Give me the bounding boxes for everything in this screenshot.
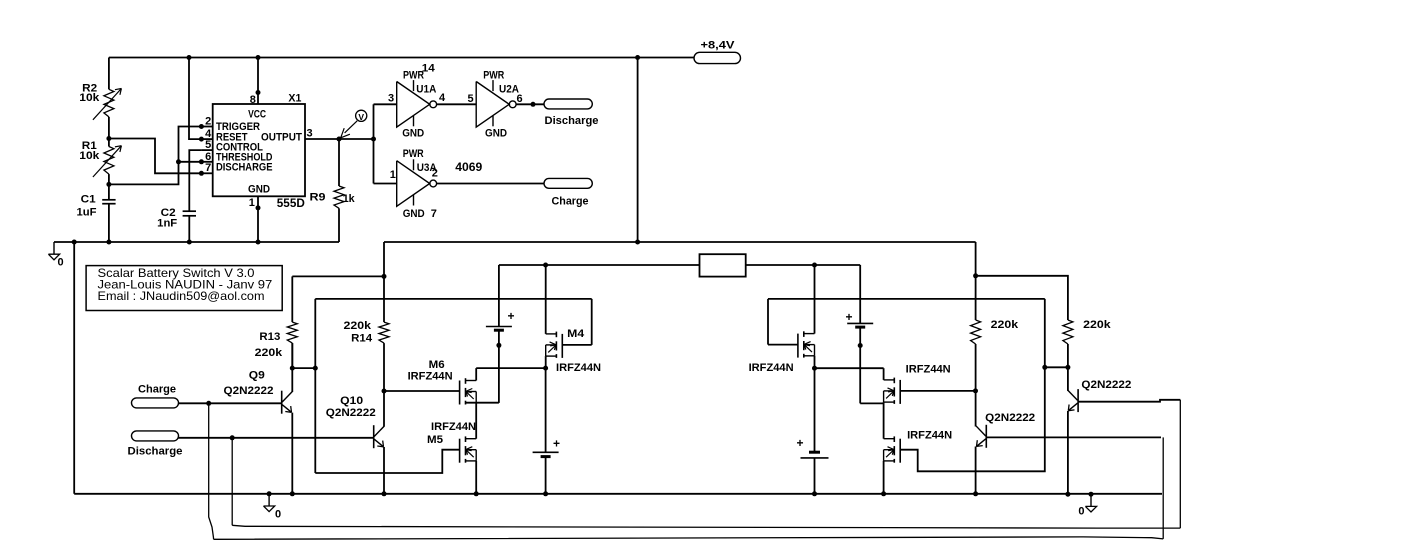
wire U2A out to Discharge connector <box>516 103 544 105</box>
wire MR3 gate run <box>900 299 1045 471</box>
node R2/R1 junction <box>106 136 111 141</box>
node ground tap bottom-right <box>1089 492 1094 497</box>
transistor MR3 IRFZ44N MOSFET <box>884 438 895 440</box>
wire M4 source to node <box>545 356 547 368</box>
resistor R13 220k <box>291 276 293 322</box>
pin 1 of 555 <box>257 196 259 242</box>
wire U1A out to U2A in <box>437 103 477 105</box>
inverter U3A 4069 <box>397 161 430 207</box>
svg-text:Q2N2222: Q2N2222 <box>985 412 1035 424</box>
transistor M5 IRFZ44N MOSFET <box>466 438 477 440</box>
wire 220k-2 feed <box>976 276 1068 320</box>
svg-text:DISCHARGE: DISCHARGE <box>216 162 273 174</box>
resistor R right-2 220k <box>1063 320 1073 344</box>
svg-text:GND: GND <box>403 208 425 220</box>
transistor Q9 Q2N2222 <box>281 391 283 414</box>
svg-text:220k: 220k <box>991 319 1019 331</box>
transistor Q10 Q2N2222 <box>373 425 375 448</box>
svg-text:M6: M6 <box>429 359 445 371</box>
wire C2 bottom lead <box>188 216 190 242</box>
wire MR2 gate lead <box>900 390 975 392</box>
node link on gate line vertical <box>313 366 318 371</box>
wire M4 gate lead <box>562 344 591 346</box>
node M4 source junction <box>543 366 548 371</box>
wire Q10 collector <box>383 391 385 427</box>
inverter U1A 4069 <box>397 82 430 128</box>
op-amp U1 555 timer X1 box <box>213 104 305 196</box>
svg-text:5: 5 <box>205 139 211 151</box>
battery B4 right pack <box>814 368 816 451</box>
svg-text:220k: 220k <box>344 320 372 332</box>
wire +8.4V bus horizontal (right segment from R14) <box>384 241 976 243</box>
svg-text:Charge: Charge <box>552 196 589 208</box>
svg-text:+: + <box>508 309 515 323</box>
svg-text:IRFZ44N: IRFZ44N <box>906 364 951 376</box>
wire right bus drop <box>975 242 977 276</box>
wire QR1 base drop right <box>1162 437 1164 539</box>
wire to U1A input <box>374 103 397 105</box>
svg-text:Email : JNaudin509@aol.com: Email : JNaudin509@aol.com <box>98 289 265 303</box>
node pin6 tap junction <box>176 159 181 164</box>
wire QR2 emitter <box>1067 411 1069 494</box>
svg-text:1nF: 1nF <box>157 218 177 230</box>
wire R2-R1 link <box>108 117 110 147</box>
ground 0 bottom-left <box>268 494 270 506</box>
node bus/left-drop junction <box>72 240 77 245</box>
wire MR2-MR3 bus <box>883 402 885 439</box>
svg-text:5: 5 <box>468 93 474 105</box>
wire B4 minus to rail <box>814 458 816 494</box>
wire inverter input feed vertical <box>373 104 375 183</box>
node 220k tap junction <box>973 273 978 278</box>
node QR2 emitter on rail <box>1065 492 1070 497</box>
node VCC junction at C2 branch <box>187 55 192 60</box>
svg-text:2: 2 <box>205 115 211 127</box>
svg-text:555D: 555D <box>277 196 305 210</box>
wire B2 minus to rail <box>545 458 547 494</box>
svg-text:14: 14 <box>422 62 436 74</box>
svg-text:Charge: Charge <box>138 384 176 396</box>
wire U3A out to Charge connector <box>437 183 545 185</box>
wire QR1 base <box>986 436 1161 438</box>
resistor R right-1 220k <box>975 276 977 320</box>
wire Q9 emitter <box>291 413 293 494</box>
wire right gate line horizontal <box>768 298 1045 300</box>
wire MR1-source/MR2-drain link <box>815 367 884 369</box>
wire +8.4V vertical to lower bus <box>637 58 639 243</box>
svg-text:IRFZ44N: IRFZ44N <box>907 430 952 442</box>
voltage probe V on output <box>356 110 367 121</box>
wire MR1 source to node <box>814 356 816 368</box>
svg-text:+8,4V: +8,4V <box>701 40 736 52</box>
svg-text:3: 3 <box>307 128 313 140</box>
svg-text:1: 1 <box>249 197 255 209</box>
wire discharge loop drop left <box>231 438 233 526</box>
svg-text:4: 4 <box>439 92 446 104</box>
node R1/C1 junction <box>106 182 111 187</box>
svg-text:10k: 10k <box>79 150 100 162</box>
wire R1 bottom lead <box>108 174 110 200</box>
node bus/C2 junction <box>187 240 192 245</box>
pin 6 of 555 <box>201 161 212 163</box>
wire MR1 drain <box>814 265 816 334</box>
wire 0V bottom rail <box>74 493 1162 495</box>
svg-text:8: 8 <box>250 94 256 106</box>
transistor M4 IRFZ44N MOSFET <box>546 333 557 335</box>
svg-text:6: 6 <box>205 151 211 163</box>
wire R13 bottom link to gate line <box>292 367 315 369</box>
ground 0 bottom-right <box>1090 494 1092 506</box>
svg-text:R9: R9 <box>310 191 326 203</box>
svg-text:VCC: VCC <box>248 109 266 121</box>
resistor R1 10k variable <box>104 147 114 175</box>
wire QR1 emitter <box>975 447 977 494</box>
svg-text:4069: 4069 <box>455 160 482 174</box>
svg-text:+: + <box>797 436 804 450</box>
wire VCC to 555 pin4 reset <box>189 58 201 140</box>
wire M6 gate <box>384 390 460 392</box>
svg-text:0: 0 <box>58 257 64 269</box>
node M6 gate tap <box>382 389 387 394</box>
node MR3 source on rail <box>881 491 886 496</box>
node M5 source on rail <box>474 491 479 496</box>
node MR1 drain tap <box>812 263 817 268</box>
svg-text:GND: GND <box>485 127 507 139</box>
node on B3 minus lead <box>858 343 863 348</box>
node junction +8.4V on lower bus <box>635 240 640 245</box>
wire M6-M5 bus <box>475 403 477 439</box>
wire R2 top lead <box>108 58 110 90</box>
svg-text:7: 7 <box>431 208 437 220</box>
node discharge loop tap <box>230 435 235 440</box>
transistor QR2 Q2N2222 <box>1077 389 1079 412</box>
wire battery1L plus to box <box>499 264 700 266</box>
svg-text:Q10: Q10 <box>340 395 363 407</box>
svg-text:0: 0 <box>1078 506 1084 518</box>
node QR1 emitter on rail <box>973 491 978 496</box>
svg-text:IRFZ44N: IRFZ44N <box>408 371 453 383</box>
wire Discharge to Q10 base <box>179 437 374 439</box>
node on B1 minus lead <box>496 343 501 348</box>
wire M5 source to rail <box>475 461 477 494</box>
wire QR2 base drop right <box>1179 400 1181 528</box>
wire Q10 emitter <box>383 447 385 494</box>
svg-text:GND: GND <box>402 127 424 139</box>
wire QR2 base <box>1078 400 1180 402</box>
wire M4/M5 gate line vertical <box>314 299 316 473</box>
wire charge bottom loop <box>214 537 1164 539</box>
wire to U3A input <box>374 183 397 185</box>
svg-text:220k: 220k <box>1083 319 1111 331</box>
wire charge loop drop left <box>209 403 214 539</box>
wire MR1 gate lead <box>768 344 798 346</box>
wire MR2 drain up <box>883 368 885 380</box>
svg-text:M4: M4 <box>567 328 585 340</box>
node on discharge wire <box>531 102 536 107</box>
capacitor C2 1nF <box>183 210 196 212</box>
wire battery B1 minus <box>498 332 500 403</box>
svg-text:IRFZ44N: IRFZ44N <box>749 362 794 374</box>
wire 555 pin6 threshold tap <box>179 161 202 163</box>
transistor QR1 Q2N2222 <box>985 425 987 448</box>
wire QR2 collector <box>1067 367 1069 391</box>
wire left vertical drop to bottom rail <box>73 242 75 494</box>
pin 4 of 555 <box>201 138 212 140</box>
svg-text:V: V <box>358 112 364 122</box>
wire B3 minus <box>859 328 861 403</box>
connector Charge (left) <box>132 398 179 408</box>
wire Charge to Q9 base <box>179 402 282 404</box>
svg-text:6: 6 <box>517 93 523 105</box>
wire B3 minus to MR2 source <box>860 402 883 404</box>
inverter U2A 4069 <box>476 82 509 128</box>
connector Discharge (left) <box>132 431 179 441</box>
svg-text:Q2N2222: Q2N2222 <box>1081 379 1131 391</box>
node VCC junction at +8.4V drop <box>635 55 640 60</box>
node junction R13-top on R14 line <box>382 274 387 279</box>
node charge loop tap <box>206 401 211 406</box>
resistor R9 1k <box>338 139 340 186</box>
svg-text:Q9: Q9 <box>249 370 265 382</box>
wire MR1 gate rise <box>767 299 769 345</box>
svg-text:3: 3 <box>388 93 394 105</box>
node B2 on rail <box>543 491 548 496</box>
svg-text:1: 1 <box>390 169 396 181</box>
node pin1 on 0V bus <box>256 240 261 245</box>
svg-text:GND: GND <box>248 184 270 196</box>
svg-text:M5: M5 <box>427 434 443 446</box>
svg-text:PWR: PWR <box>483 70 504 82</box>
resistor R2 10k variable <box>104 89 114 117</box>
svg-text:+: + <box>553 437 560 451</box>
connector Discharge (top) <box>544 99 592 109</box>
wire QR1 collector <box>975 391 977 427</box>
svg-text:0: 0 <box>275 509 281 521</box>
svg-text:10k: 10k <box>79 92 100 104</box>
svg-text:IRFZ44N: IRFZ44N <box>431 421 476 433</box>
power connector +8.4V <box>694 52 741 63</box>
node ground tap bottom-left <box>267 491 272 496</box>
node Q9 emitter on rail <box>290 491 295 496</box>
connector Charge (top) <box>544 178 592 188</box>
transistor MR2 IRFZ44N MOSFET <box>884 379 895 381</box>
svg-text:R13: R13 <box>259 331 280 343</box>
transistor MR1 IRFZ44N MOSFET <box>804 333 815 335</box>
wire MR3 source to rail <box>883 461 885 494</box>
resistor R14 220k <box>383 242 385 322</box>
svg-text:Q2N2222: Q2N2222 <box>326 407 376 419</box>
wire right cross-link <box>1045 366 1068 368</box>
svg-text:1uF: 1uF <box>77 207 97 219</box>
svg-text:C1: C1 <box>81 194 96 206</box>
svg-text:OUTPUT: OUTPUT <box>261 131 302 143</box>
svg-text:Q2N2222: Q2N2222 <box>224 385 274 397</box>
node bus/C1 junction <box>106 240 111 245</box>
wire discharge bottom loop <box>232 525 1180 528</box>
node output junction at R9 <box>337 137 342 142</box>
pin 2 of 555 <box>201 126 212 128</box>
shunt box component <box>700 254 746 276</box>
node Q10 emitter on rail <box>382 491 387 496</box>
wire M4 gate drop <box>591 299 593 345</box>
svg-text:2: 2 <box>432 168 438 180</box>
wire box to battery B1R <box>746 264 861 266</box>
svg-text:7: 7 <box>205 162 211 174</box>
svg-text:Discharge: Discharge <box>128 446 183 458</box>
svg-text:Discharge: Discharge <box>545 115 599 127</box>
wire M5 gate run <box>315 450 459 473</box>
node cross-link at 220k <box>1065 365 1070 370</box>
wire 0V bus horizontal (left segment, ends at R9) <box>54 241 339 243</box>
wire R13 top to R14 line <box>292 275 384 277</box>
wire R1-R2 junction to 555 pin7 discharge <box>109 139 201 174</box>
transistor M6 IRFZ44N MOSFET <box>466 380 477 382</box>
ground 0 top-left <box>53 242 55 254</box>
wire Q9 collector <box>291 343 293 392</box>
node M4 drain tap <box>543 263 548 268</box>
wire M6 source to battery B1 minus <box>466 402 499 404</box>
battery B3 right pack <box>859 265 861 323</box>
title box frame <box>86 266 282 311</box>
svg-text:IRFZ44N: IRFZ44N <box>556 362 601 374</box>
pin 7 of 555 <box>201 172 212 174</box>
node MR1 source junction <box>812 366 817 371</box>
pin 8 of 555 <box>257 58 259 105</box>
node right gate line cross-link <box>1042 365 1047 370</box>
wire C1 bottom lead <box>108 204 110 242</box>
wire M4 drain <box>545 265 547 334</box>
pin 5 of 555 <box>201 149 212 151</box>
wire M4 gate line horizontal <box>315 298 591 300</box>
svg-text:220k: 220k <box>255 347 283 359</box>
node MR2 gate junction <box>973 388 978 393</box>
node R13 bottom junction <box>290 366 295 371</box>
wire M6 drain up <box>475 368 477 380</box>
node VCC junction at 555 pin8 <box>256 55 261 60</box>
svg-text:R14: R14 <box>351 333 373 345</box>
svg-text:U1A: U1A <box>416 84 436 96</box>
node B4 on rail <box>812 491 817 496</box>
svg-text:PWR: PWR <box>403 148 424 160</box>
battery B2 left pack <box>545 368 547 452</box>
pin 3 output of 555 <box>305 138 374 140</box>
capacitor C1 1uF <box>102 199 115 201</box>
svg-text:+: + <box>846 310 853 324</box>
wire VCC top rail <box>109 57 694 59</box>
wire M4-source/M6-drain link <box>476 367 545 369</box>
wire 555 pin5 control to C2 <box>189 150 201 211</box>
battery B1 left pack <box>498 265 500 327</box>
svg-text:1k: 1k <box>343 193 356 205</box>
svg-text:X1: X1 <box>288 93 301 105</box>
node output junction at inverter feed <box>371 137 376 142</box>
wire C1 top to 555 pin2 trigger <box>109 127 201 185</box>
